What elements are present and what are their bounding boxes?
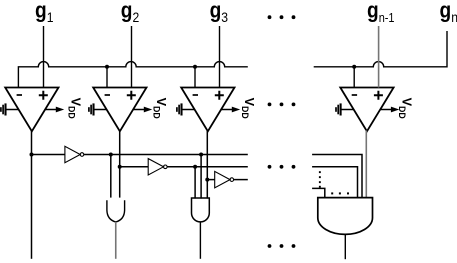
wire: inverter B3 output line to ellipsis	[234, 179, 248, 181]
OR gate A2 (open-top, pointed bottom)	[107, 200, 125, 222]
wire: bus stub to "-" of comparator n-1	[353, 67, 355, 88]
Un-1 inverting input "-"	[352, 94, 357, 96]
VDD output arrow of U3	[221, 107, 240, 113]
wire: inverter B1 output line across (to gates A2, A3, ...)	[84, 154, 248, 156]
junction B1-line to gate A3	[199, 153, 203, 157]
wire: U1 output to inverter B1 input	[32, 154, 65, 156]
ellipsis: more inverter lines (vertical dotted)	[319, 171, 321, 188]
U3 non-inverting input "+"	[215, 91, 224, 100]
junction at U2 output / inverter B2 input	[118, 165, 122, 169]
wire: branch down into gate A3 left input	[194, 167, 196, 199]
wire: bus stub to "-" of comparator 3	[194, 67, 196, 88]
wire: comparator U3 output down into gate A3	[206, 131, 208, 199]
gate A3 output wire	[199, 222, 201, 259]
node g1 label	[35, 0, 53, 25]
ground symbol at U3	[177, 103, 195, 115]
ground symbol at U2	[89, 103, 107, 115]
wire: comparator U2 output down into gate A2	[119, 131, 121, 198]
AND gate A3	[192, 198, 210, 222]
comparator U2	[93, 88, 146, 132]
junction B2-line to gate A3	[193, 165, 197, 169]
VDD output arrow of Un-1	[380, 107, 399, 113]
wire: U3 output to inverter B3 input	[207, 179, 214, 181]
U1 non-inverting input "+"	[39, 91, 48, 100]
ellipsis dots (wires row)	[268, 165, 296, 169]
wire: U2 output to inverter B2 input	[120, 166, 149, 168]
wire: input g line into "+" of U2	[131, 26, 133, 88]
inverter B2	[148, 159, 167, 175]
wire: B1 line resumes right of ellipsis, into gate An-1	[312, 155, 362, 199]
VDD output arrow of U2	[133, 107, 152, 113]
U2 non-inverting input "+"	[127, 91, 136, 100]
VDD output arrow of U1	[45, 107, 64, 113]
wire: input g line into "+" of U1	[43, 26, 45, 88]
wire: B2 line resumes right of ellipsis, into gate An-1	[312, 167, 357, 199]
ellipsis dots (bottom row)	[268, 244, 296, 248]
inverter B1	[65, 146, 84, 162]
U3 inverting input "-"	[193, 94, 198, 96]
junction at U1 output / inverter B1 input	[30, 153, 34, 157]
gate A2 output wire	[115, 222, 117, 259]
junction on bus at comparator 2	[105, 65, 109, 69]
ground symbol at U1	[1, 103, 19, 115]
inverter B3	[215, 171, 234, 187]
wire: branch down into gate A2 left input	[110, 155, 112, 198]
wire: last inverter line (Bn-2) into gate An-1 left input	[312, 188, 325, 198]
wire: comparator U1 output down to bottom	[31, 131, 33, 259]
wire: shared inverting-input bus from gn (left section, hops over g1 g2 g3)	[18, 62, 247, 88]
wire: inverter B2 output line across	[167, 166, 248, 168]
junction on bus at comparator 3	[193, 65, 197, 69]
U2 inverting input "-"	[105, 94, 110, 96]
node g3 label	[210, 0, 228, 25]
ellipsis dots (middle row)	[268, 103, 296, 107]
node g2 label	[121, 0, 139, 25]
AND gate An-1 (wide)	[318, 198, 373, 235]
wire: bus stub to "-" of comparator 2	[106, 67, 108, 88]
Un-1 non-inverting input "+"	[374, 91, 383, 100]
node gn label	[440, 0, 457, 25]
wire: branch down into gate A3 middle input	[200, 155, 202, 199]
junction B1-line to gate A2	[109, 153, 113, 157]
wire: shared inverting-input bus (right section, hop over gn-1, up to gn)	[314, 31, 447, 67]
gate An-1 output wire	[344, 234, 346, 259]
ground symbol at Un-1	[336, 103, 354, 115]
comparator Un-1	[340, 88, 393, 132]
junction at U3 output / inverter B3 input	[205, 178, 209, 182]
wire: comparator Un-1 output down into gate An-1	[365, 131, 367, 199]
wire: input g line into "+" of Un-1	[378, 26, 380, 88]
ellipsis dots (top row)	[268, 15, 296, 19]
comparator U1	[5, 88, 58, 132]
node gn-1 label	[367, 0, 395, 25]
wire: input g line into "+" of U3	[219, 26, 221, 88]
U1 inverting input "-"	[17, 94, 22, 96]
junction on bus at comparator n-1	[352, 65, 356, 69]
comparator U3	[181, 88, 234, 132]
ellipsis: more gate inputs (horizontal dots)	[331, 192, 349, 194]
